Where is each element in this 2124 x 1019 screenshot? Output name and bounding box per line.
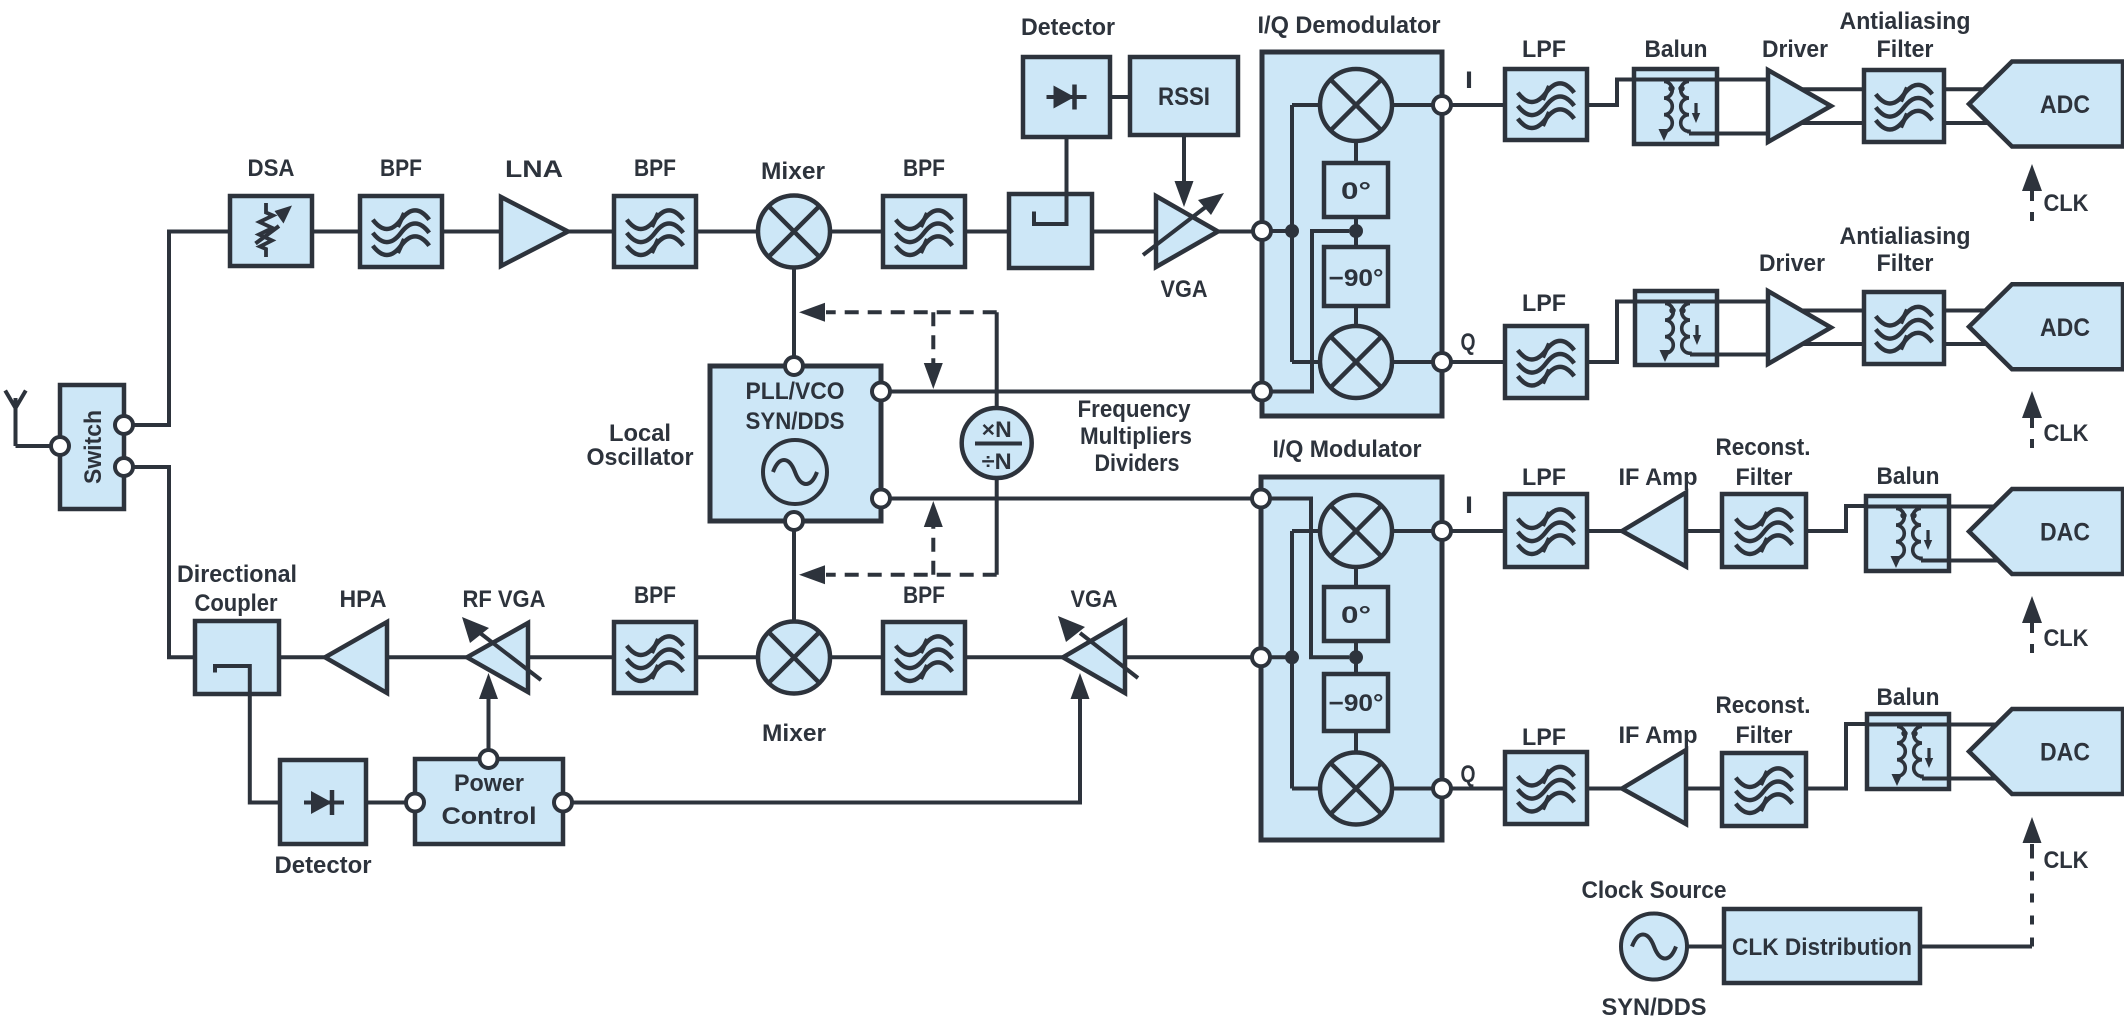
VGA (RX) variable gain amplifier: [1156, 196, 1218, 267]
svg-text:Balun: Balun: [1645, 36, 1708, 63]
BPF B3: [883, 196, 965, 267]
junction mod phase node: [1349, 650, 1363, 664]
svg-text:÷N: ÷N: [982, 449, 1012, 474]
phase shifter 0 deg (demod): [1324, 163, 1388, 217]
svg-text:Balun: Balun: [1877, 684, 1940, 711]
power control block: [415, 759, 563, 844]
svg-text:RSSI: RSSI: [1158, 83, 1210, 111]
svg-text:CLK: CLK: [2044, 190, 2090, 217]
svg-text:CLK Distribution: CLK Distribution: [1732, 934, 1912, 961]
svg-text:Filter: Filter: [1736, 464, 1793, 491]
svg-text:Oscillator: Oscillator: [587, 444, 694, 471]
dashed LO feedback to mixer1: [826, 310, 997, 314]
svg-text:LPF: LPF: [1522, 290, 1566, 317]
LPF L3 (I): [1505, 494, 1587, 567]
terminal mod RF out: [1252, 648, 1270, 666]
BPF B5: [883, 622, 965, 693]
wire reconst filter to balun (I, step up): [1806, 506, 1868, 531]
wire power control to RF VGA: [487, 689, 491, 752]
wire multiplier chain vertical: [995, 312, 999, 574]
wire demod phase chain: [1354, 142, 1358, 164]
BPF B2: [614, 196, 696, 267]
svg-text:Directional: Directional: [177, 561, 297, 588]
junction mod RF combine: [1285, 650, 1299, 664]
BPF B1: [360, 196, 442, 267]
DSA block (digital step attenuator): [230, 196, 312, 266]
svg-text:I: I: [1465, 67, 1473, 94]
svg-text:BPF: BPF: [380, 155, 422, 182]
svg-text:I: I: [1465, 492, 1473, 519]
balun T4 (Q): [1867, 714, 1949, 789]
wire LO to I/Q modulator: [881, 497, 1261, 501]
dashed arrow into mod LO line: [931, 527, 935, 575]
wire mod RF combine vertical: [1290, 531, 1294, 789]
svg-text:−90°: −90°: [1329, 265, 1384, 292]
dashed LO feedback to mixer2: [826, 573, 997, 577]
svg-text:−90°: −90°: [1329, 690, 1384, 717]
wire mod RF output to junction: [1261, 655, 1292, 659]
svg-text:HPA: HPA: [340, 586, 387, 613]
wire demod RF split vertical: [1290, 105, 1294, 362]
LPF L2 (Q): [1505, 326, 1587, 398]
IF amplifier A4 (Q): [1622, 750, 1686, 824]
svg-text:LPF: LPF: [1522, 724, 1566, 751]
driver amplifier A2 (Q): [1768, 291, 1831, 364]
wire detector to RSSI: [1110, 95, 1130, 99]
CLK arrow ADC1: [2022, 164, 2042, 191]
svg-text:Filter: Filter: [1877, 36, 1934, 63]
svg-text:Mixer: Mixer: [762, 720, 826, 747]
phase shifter 0 deg (mod): [1324, 587, 1388, 641]
DAC 2 (Q): [1969, 709, 2123, 794]
mixer M2 (TX): [758, 622, 830, 694]
CLK distribution block: [1724, 909, 1920, 983]
detector D1 (RX): [1023, 57, 1110, 137]
HPA high power amplifier: [325, 622, 387, 693]
wire antenna to switch: [16, 444, 58, 448]
directional coupler pickoff (RX): [1009, 194, 1092, 268]
mixer M1 (RX): [758, 196, 830, 268]
ADC 1 (I): [1969, 62, 2123, 147]
mixer mod I: [1320, 495, 1392, 567]
svg-text:ADC: ADC: [2040, 314, 2090, 342]
svg-text:Q: Q: [1461, 761, 1476, 788]
wire demod RF input to junction: [1262, 229, 1292, 233]
mixer mod Q: [1320, 753, 1392, 825]
svg-text:I/Q Demodulator: I/Q Demodulator: [1258, 12, 1441, 39]
svg-text:Clock Source: Clock Source: [1582, 877, 1727, 904]
svg-text:IF Amp: IF Amp: [1619, 464, 1698, 491]
svg-text:VGA: VGA: [1161, 276, 1208, 303]
ADC 2 (Q): [1969, 284, 2123, 369]
wire mod phase chain: [1354, 568, 1358, 588]
I/Q modulator block: [1261, 477, 1442, 840]
svg-text:Antialiasing: Antialiasing: [1840, 8, 1971, 35]
mixer demod I: [1320, 69, 1392, 141]
DAC 1 (I): [1969, 489, 2123, 574]
svg-text:Detector: Detector: [275, 852, 372, 879]
svg-text:DAC: DAC: [2040, 739, 2090, 767]
wire power control to TX VGA: [563, 689, 1080, 803]
wire demod mixer outputs: [1392, 103, 1442, 107]
wire mod Q in from LPF: [1442, 787, 1505, 791]
svg-text:×N: ×N: [982, 417, 1012, 442]
reconstruction filter F4 (Q): [1722, 753, 1806, 826]
wire LO to I/Q demodulator: [881, 390, 1262, 394]
dashed arrow into demod LO line: [931, 312, 935, 363]
antialiasing filter F1 (I): [1864, 70, 1944, 142]
terminal mod Q in: [1433, 780, 1451, 798]
terminal demod I out: [1433, 96, 1451, 114]
svg-text:SYN/DDS: SYN/DDS: [1602, 994, 1707, 1019]
svg-text:0°: 0°: [1341, 178, 1371, 205]
terminal demod Q out: [1433, 353, 1451, 371]
svg-text:Local: Local: [609, 420, 671, 447]
mixer demod Q: [1320, 326, 1392, 398]
antenna: [5, 391, 26, 447]
svg-text:LPF: LPF: [1522, 464, 1566, 491]
svg-text:DSA: DSA: [248, 155, 295, 182]
terminal mod LO in: [1252, 490, 1270, 508]
svg-text:DAC: DAC: [2040, 519, 2090, 547]
svg-text:ADC: ADC: [2040, 91, 2090, 119]
wire LPF to balun (Q, step up): [1587, 302, 1637, 363]
svg-text:Detector: Detector: [1021, 14, 1115, 41]
wire reconst filter to balun (Q, step up): [1806, 724, 1869, 789]
svg-text:Filter: Filter: [1736, 722, 1793, 749]
LPF L4 (Q): [1505, 752, 1587, 824]
IF amplifier A3 (I): [1622, 493, 1686, 567]
svg-text:LNA: LNA: [505, 156, 563, 183]
wire mod I in from LPF: [1442, 529, 1505, 533]
junction demod RF split: [1285, 224, 1299, 238]
terminal demod RF in: [1253, 222, 1271, 240]
wire RSSI gain control arrow to VGA: [1182, 135, 1186, 183]
wire IF amp to LPF (Q): [1587, 787, 1692, 791]
wire IF amp to LPF (I): [1587, 529, 1692, 533]
wire clock source to CLK distribution: [1686, 945, 1724, 949]
wire reconst filter to IF amp (Q): [1686, 787, 1722, 791]
svg-text:Reconst.: Reconst.: [1716, 692, 1811, 719]
wire mixer2 LO port: [792, 530, 796, 622]
svg-text:Frequency: Frequency: [1078, 396, 1192, 423]
wire detector2 to power control: [366, 801, 415, 805]
wire demod Q out to LPF: [1442, 360, 1505, 364]
svg-text:BPF: BPF: [903, 155, 945, 182]
BPF B4: [614, 622, 696, 693]
junction demod phase node: [1349, 224, 1363, 238]
wire switch to DSA (RX chain main line): [124, 232, 1262, 426]
svg-text:Dividers: Dividers: [1095, 450, 1180, 477]
svg-text:IF Amp: IF Amp: [1619, 722, 1698, 749]
balun T2 (Q): [1635, 291, 1717, 365]
wire reconst filter to IF amp (I): [1686, 529, 1722, 533]
svg-text:BPF: BPF: [634, 582, 676, 609]
svg-text:PLL/VCO: PLL/VCO: [746, 378, 845, 405]
clock source SYN/DDS oscillator: [1621, 914, 1687, 980]
local oscillator PLL/VCO SYN/DDS: [710, 366, 881, 521]
directional coupler (TX): [195, 621, 279, 694]
svg-text:VGA: VGA: [1071, 586, 1118, 613]
svg-text:Antialiasing: Antialiasing: [1840, 223, 1971, 250]
wire demod I out to LPF: [1442, 103, 1505, 107]
svg-text:Multipliers: Multipliers: [1080, 423, 1192, 450]
reconstruction filter F3 (I): [1722, 494, 1806, 567]
svg-text:Driver: Driver: [1759, 250, 1825, 277]
svg-text:Control: Control: [442, 803, 537, 830]
svg-text:Driver: Driver: [1762, 36, 1828, 63]
svg-text:Balun: Balun: [1877, 463, 1940, 490]
phase shifter -90 deg (demod): [1324, 247, 1388, 306]
balun T3 (I): [1866, 496, 1949, 571]
wire LPF to balun (I, step up): [1587, 80, 1636, 106]
RF VGA variable gain amplifier (TX): [467, 623, 528, 692]
svg-text:Coupler: Coupler: [195, 590, 278, 617]
VGA (TX) variable gain amplifier: [1063, 621, 1125, 693]
wire mixer1 LO port: [792, 267, 796, 358]
svg-text:CLK: CLK: [2044, 420, 2090, 447]
terminal demod LO in: [1253, 383, 1271, 401]
svg-text:Filter: Filter: [1877, 250, 1934, 277]
svg-text:SYN/DDS: SYN/DDS: [746, 408, 845, 435]
wire demod LO route: [1262, 231, 1349, 392]
I/Q demodulator block: [1262, 52, 1442, 416]
CLK arrow ADC2: [2022, 391, 2042, 418]
svg-text:Switch: Switch: [80, 410, 107, 484]
wire switch to directional coupler (TX chain main line): [124, 467, 1261, 657]
terminal mod I in: [1433, 522, 1451, 540]
switch SW1: [60, 385, 124, 509]
svg-text:RF VGA: RF VGA: [463, 586, 546, 613]
wire driver outputs to ADC (I): [1795, 87, 1992, 91]
svg-text:Power: Power: [454, 770, 524, 797]
svg-text:0°: 0°: [1341, 602, 1371, 629]
frequency multiplier/divider xN/divN: [962, 408, 1032, 478]
LNA amplifier: [501, 197, 568, 266]
wire CLK distribution output: [1920, 945, 2032, 949]
wire driver outputs to ADC (Q): [1795, 309, 1992, 313]
svg-text:Mixer: Mixer: [761, 158, 825, 185]
detector D2 (TX): [280, 760, 366, 844]
LPF L1 (I): [1505, 69, 1587, 140]
phase shifter -90 deg (mod): [1324, 674, 1388, 731]
svg-text:CLK: CLK: [2044, 847, 2090, 874]
CLK arrow DAC2 from distribution: [2030, 846, 2034, 947]
svg-text:LPF: LPF: [1522, 36, 1566, 63]
svg-text:BPF: BPF: [903, 582, 945, 609]
svg-text:CLK: CLK: [2044, 625, 2090, 652]
wire mod LO route: [1261, 499, 1349, 658]
balun T1 (I): [1634, 69, 1717, 144]
driver amplifier A1 (I): [1768, 70, 1831, 142]
svg-text:I/Q Modulator: I/Q Modulator: [1273, 436, 1422, 463]
antialiasing filter F2 (Q): [1864, 292, 1944, 364]
CLK arrow DAC1: [2022, 596, 2042, 623]
svg-text:Reconst.: Reconst.: [1716, 434, 1811, 461]
RSSI block: [1130, 57, 1238, 135]
wire mod mixer inputs: [1392, 529, 1442, 533]
svg-text:BPF: BPF: [634, 155, 676, 182]
svg-text:Q: Q: [1461, 329, 1476, 356]
